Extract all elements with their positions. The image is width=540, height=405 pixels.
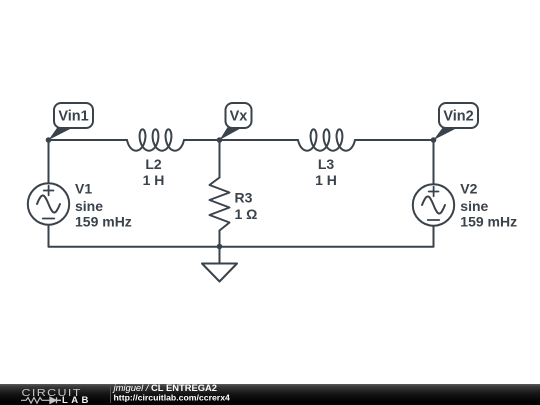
voltage source V1 circle: [28, 183, 69, 224]
svg-text:sine: sine: [75, 198, 103, 214]
voltage source V2 circle: [413, 184, 454, 225]
inductor L2 coil: [127, 129, 184, 150]
wire V2 bottom to bottom rail: [433, 226, 435, 247]
V2 sine wave glyph: [422, 197, 445, 214]
V2 plus sign: [429, 187, 439, 197]
ground symbol triangle: [202, 264, 237, 282]
wire R3 bottom to bottom rail: [219, 231, 221, 247]
wire Vin1 node down to V1 top: [48, 140, 50, 184]
svg-text:V2: V2: [460, 181, 477, 197]
svg-text:Vin1: Vin1: [58, 109, 88, 125]
svg-text:Vx: Vx: [230, 109, 248, 125]
footer separator line: [110, 386, 112, 403]
svg-text:jmiguel / CL ENTREGA2: jmiguel / CL ENTREGA2: [112, 382, 218, 393]
inductor L3 coil: [298, 129, 355, 150]
wire node Vx to L3: [220, 139, 299, 141]
V1 minus sign: [43, 218, 55, 220]
Vx label tail: [220, 127, 245, 141]
svg-text:1 H: 1 H: [315, 172, 337, 188]
V1 plus sign: [44, 186, 54, 196]
wire Vin2 node down to V2 top: [433, 140, 435, 185]
svg-text:LAB: LAB: [62, 395, 92, 405]
node Vx junction dot: [217, 137, 223, 143]
svg-text:Vin2: Vin2: [443, 109, 473, 125]
Vin2 label tail: [434, 127, 461, 141]
svg-text:L3: L3: [318, 156, 335, 172]
svg-text:1 Ω: 1 Ω: [235, 206, 258, 222]
svg-text:159 mHz: 159 mHz: [460, 214, 517, 230]
wire V1 bottom to bottom rail: [48, 225, 50, 247]
wire Vx node down to R3 top: [219, 140, 221, 178]
V2 minus sign: [428, 219, 440, 221]
svg-text:V1: V1: [75, 181, 92, 197]
CircuitLab logo wordmark CIRCUIT: [22, 388, 82, 399]
Vx label box: [226, 103, 252, 128]
Vin1 label box: [54, 103, 93, 128]
wire node Vin1 to L2: [49, 139, 128, 141]
svg-text:http://circuitlab.com/ccrerx4: http://circuitlab.com/ccrerx4: [114, 392, 231, 402]
svg-text:159 mHz: 159 mHz: [75, 214, 132, 230]
svg-text:1 H: 1 H: [143, 172, 165, 188]
wire L3 to node Vin2: [355, 139, 434, 141]
V1 sine wave glyph: [37, 196, 60, 213]
node Vin2 junction dot: [431, 137, 437, 143]
svg-text:sine: sine: [460, 198, 488, 214]
svg-text:R3: R3: [235, 190, 253, 206]
node R3-ground junction dot: [217, 244, 223, 250]
ground stub wire: [219, 247, 221, 264]
node Vin1 junction dot: [46, 137, 52, 143]
wire L2 to node Vx: [184, 139, 220, 141]
wire bottom rail: [49, 246, 434, 248]
logo resistor squiggle: [21, 398, 50, 404]
logo diode symbol: [50, 397, 61, 403]
resistor R3 zigzag: [210, 178, 230, 231]
svg-text:L2: L2: [145, 156, 162, 172]
Vin2 label box: [439, 103, 478, 128]
Vin1 label tail: [49, 127, 76, 141]
